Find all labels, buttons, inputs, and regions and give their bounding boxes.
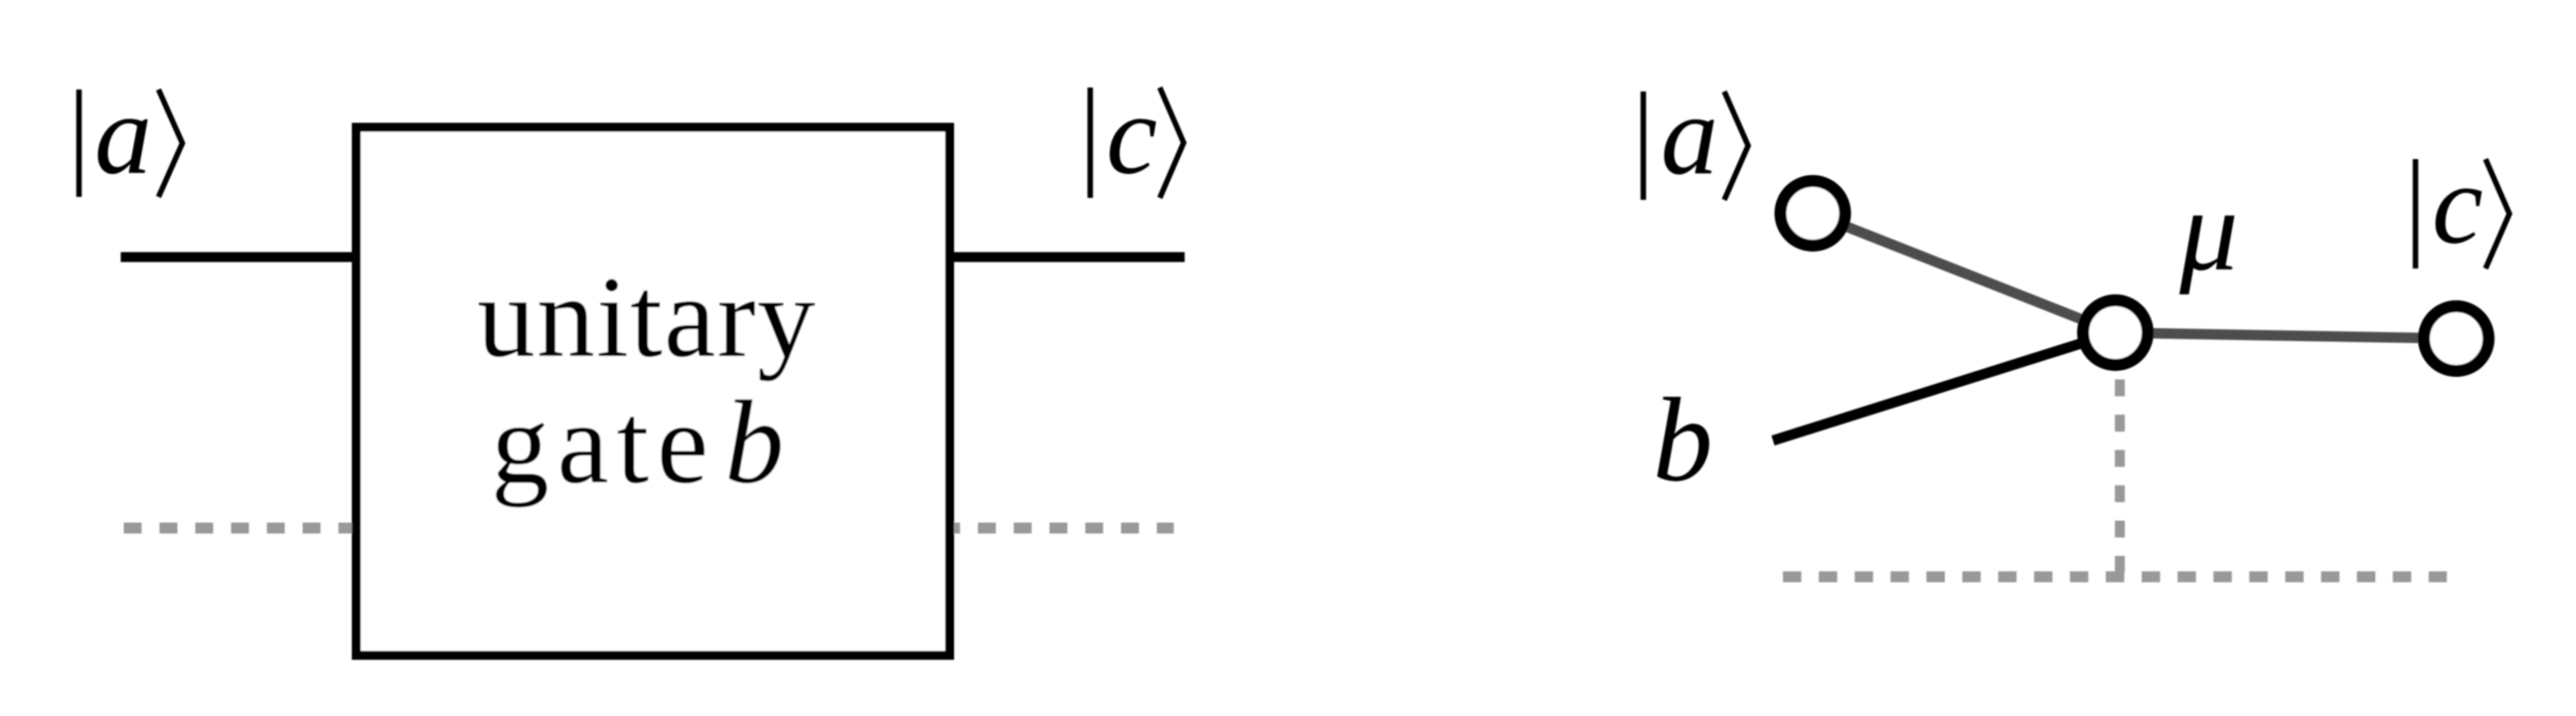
node c (circle)	[2424, 306, 2489, 371]
svg-text:unitary: unitary	[477, 254, 817, 382]
wire (left input)	[121, 253, 357, 263]
svg-text:gate: gate	[491, 380, 717, 508]
svg-text:b: b	[724, 376, 784, 508]
edge from b to node mu (black)	[1773, 333, 2116, 442]
node a (circle)	[1781, 181, 1846, 246]
svg-text:a: a	[1661, 73, 1718, 200]
svg-text:c: c	[1106, 72, 1158, 199]
dashed classical line (left segment)	[124, 523, 353, 534]
wire (right output)	[949, 253, 1185, 263]
node mu (circle)	[2083, 300, 2148, 365]
ket label |c> (right figure)	[2416, 141, 2510, 268]
dashed line vertical (from mu down)	[2115, 380, 2125, 576]
edge from node a to node mu (gray)	[1813, 214, 2116, 333]
svg-text:μ: μ	[2178, 165, 2238, 295]
svg-text:c: c	[2432, 141, 2484, 268]
ket label |a> (right figure)	[1644, 73, 1749, 201]
ket label |c> (left figure)	[1090, 72, 1184, 199]
dashed line horizontal (bottom)	[1783, 572, 2447, 583]
svg-text:b: b	[1653, 374, 1713, 507]
unitary gate box	[357, 127, 950, 655]
dashed classical line (right segment)	[954, 523, 1174, 534]
ket label |a> (left figure)	[80, 72, 183, 199]
edge from node mu to node c (gray)	[2116, 333, 2457, 339]
svg-text:a: a	[94, 72, 152, 199]
